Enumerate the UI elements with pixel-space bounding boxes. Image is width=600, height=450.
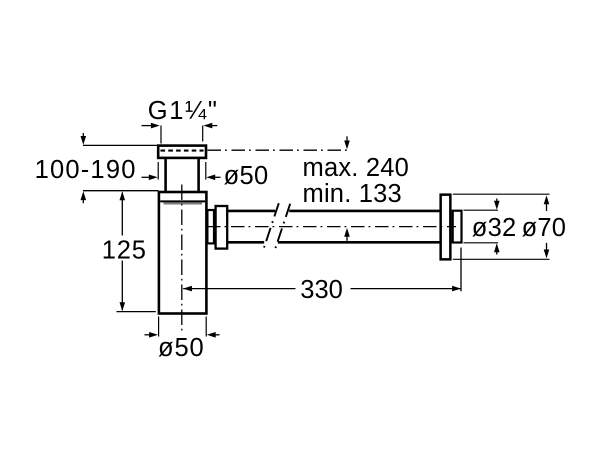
horizontal centerline of pipe — [207, 226, 456, 228]
diameter 70 up arrow — [544, 195, 550, 211]
125 bottom arrow — [120, 302, 126, 311]
diameter 50 top: left arrow — [142, 175, 158, 181]
100-190 down arrow — [81, 133, 87, 145]
diameter 32 bottom extension line — [464, 242, 499, 244]
330 dimension line right segment — [351, 288, 461, 290]
diameter 50 top: left extension line — [157, 162, 159, 180]
diameter 50 bottom: right extension line — [205, 317, 207, 337]
svg-text:ø32: ø32 — [472, 214, 517, 242]
125 dimension line — [121, 193, 123, 311]
svg-text:G1¼": G1¼" — [148, 97, 219, 125]
vertical centerline of body — [181, 185, 183, 331]
330 left arrow — [183, 286, 192, 292]
330 right arrow — [452, 286, 461, 292]
wall flange — [441, 195, 451, 260]
diameter 32 top extension line — [464, 209, 499, 211]
330 right extension line — [460, 248, 462, 292]
body joint line — [160, 201, 205, 203]
svg-text:330: 330 — [300, 276, 343, 304]
diameter 70 top extension line — [453, 193, 550, 195]
330 dimension line left segment — [183, 288, 295, 290]
inlet tail tube — [166, 158, 199, 193]
max/min dimension up arrow — [344, 228, 350, 241]
svg-text:100-190: 100-190 — [35, 156, 137, 184]
diameter 70 down arrow — [544, 243, 550, 259]
diameter 50 bottom: left extension line — [158, 317, 160, 337]
pipe end stub — [453, 211, 462, 243]
outlet stub between body and nut — [207, 210, 214, 243]
125 bottom extension line — [117, 311, 156, 313]
diameter 70 bottom extension line — [453, 258, 550, 260]
trap body — [159, 192, 207, 314]
G 1 1/4 right extension line — [202, 126, 204, 142]
diameter 50 top: right extension line — [205, 162, 207, 180]
horizontal outlet pipe — [228, 211, 441, 242]
svg-text:min. 133: min. 133 — [303, 180, 402, 208]
svg-text:ø50: ø50 — [158, 334, 205, 362]
G 1 1/4 left arrow — [142, 123, 160, 129]
100-190 bottom extension line — [83, 190, 159, 192]
G 1 1/4 left extension line — [160, 126, 162, 144]
diameter 32 up arrow — [494, 243, 500, 254]
svg-text:ø50: ø50 — [224, 162, 269, 190]
diameter 50 top: right arrow — [206, 175, 220, 181]
diameter 32 down arrow — [494, 199, 500, 210]
svg-text:max. 240: max. 240 — [303, 154, 410, 182]
top centerline from flange — [208, 149, 348, 151]
svg-text:ø70: ø70 — [522, 214, 567, 242]
top flange (basin waste flange) — [158, 146, 206, 158]
125 top arrow — [120, 191, 126, 200]
pipe break marks — [262, 203, 290, 253]
100-190 up arrow — [81, 191, 87, 203]
diameter 50 bottom: left arrow — [145, 332, 159, 338]
svg-text:125: 125 — [102, 236, 147, 264]
100-190 top extension line — [83, 144, 157, 146]
max/min dimension down arrow — [344, 136, 350, 149]
diameter 50 bottom: right arrow — [207, 332, 220, 338]
G 1 1/4 right arrow — [203, 123, 217, 129]
compression nut — [216, 206, 228, 249]
